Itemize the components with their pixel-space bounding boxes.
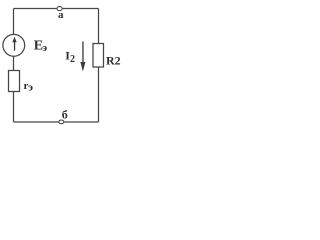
svg-text:б: б [62,108,68,122]
wire left middle [13,56,15,70]
svg-text:a: a [58,9,64,21]
source E circle [3,34,25,56]
wire left lower [13,92,15,123]
resistor R2 rect [93,44,104,68]
resistor r rect [9,71,20,92]
node a terminal [57,7,62,11]
wire top [14,8,99,10]
current I2 arrow [80,42,85,72]
source arrow [12,37,16,51]
wire bottom [14,121,99,123]
svg-text:rэ: rэ [24,80,34,94]
wire right upper [98,9,100,44]
svg-text:R2: R2 [106,54,121,68]
node b terminal [59,120,64,124]
wire left upper [13,9,15,35]
wire right lower [98,67,100,122]
